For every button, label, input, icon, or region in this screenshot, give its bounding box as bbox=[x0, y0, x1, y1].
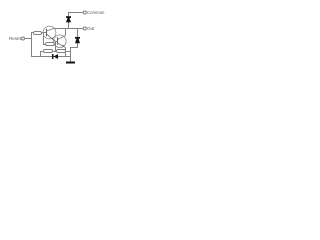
wire D2 anode down bbox=[77, 43, 79, 48]
wire to R1 bbox=[31, 32, 34, 34]
wire out rail bbox=[54, 28, 84, 30]
terminal out bbox=[83, 27, 86, 30]
wire input junction vertical bbox=[31, 32, 33, 57]
wire bottom rail bbox=[31, 56, 71, 58]
resistor R2 bbox=[46, 43, 55, 46]
svg-text:Out: Out bbox=[87, 26, 95, 31]
wire D1 anode stub bbox=[68, 12, 70, 17]
wire Q1 base node down to R2 bbox=[44, 33, 46, 45]
terminal common bbox=[83, 11, 86, 14]
wire D1 cathode down to out rail bbox=[68, 22, 70, 29]
wire input terminal to junction bbox=[25, 38, 33, 40]
wire R3 to R4 bbox=[53, 51, 57, 53]
diode D3 bbox=[52, 54, 58, 59]
wire node vertical Q2 base to R3/R4 junction bbox=[55, 41, 57, 52]
svg-text:Common: Common bbox=[87, 10, 105, 15]
ground bbox=[66, 62, 75, 64]
wire R3 left to bottom rail bbox=[41, 52, 44, 58]
wire R2 right to node vertical bbox=[55, 44, 57, 46]
diode D2 bbox=[75, 37, 80, 43]
wire D2 cathode up to out rail bbox=[77, 28, 79, 37]
wire top rail to common terminal bbox=[68, 12, 83, 14]
resistor R1 bbox=[34, 32, 42, 35]
wire R4 right to ground node bbox=[66, 51, 72, 53]
terminal input bbox=[22, 37, 25, 40]
svg-text:Reset: Reset bbox=[9, 36, 22, 41]
resistor R3 bbox=[44, 50, 53, 53]
wire R1 to Q1 base bbox=[42, 32, 47, 34]
diode D1 bbox=[66, 16, 71, 22]
transistor Q1 bbox=[43, 26, 56, 41]
resistor R4 bbox=[57, 50, 66, 53]
wire ground drop bbox=[70, 47, 72, 62]
wire D2 bottom to ground node bbox=[71, 47, 78, 49]
transistor Q2 bbox=[54, 35, 67, 48]
wire Q2 collector vertical bbox=[65, 29, 67, 36]
wire Q2 emitter vertical to bottom rail bbox=[65, 48, 67, 58]
